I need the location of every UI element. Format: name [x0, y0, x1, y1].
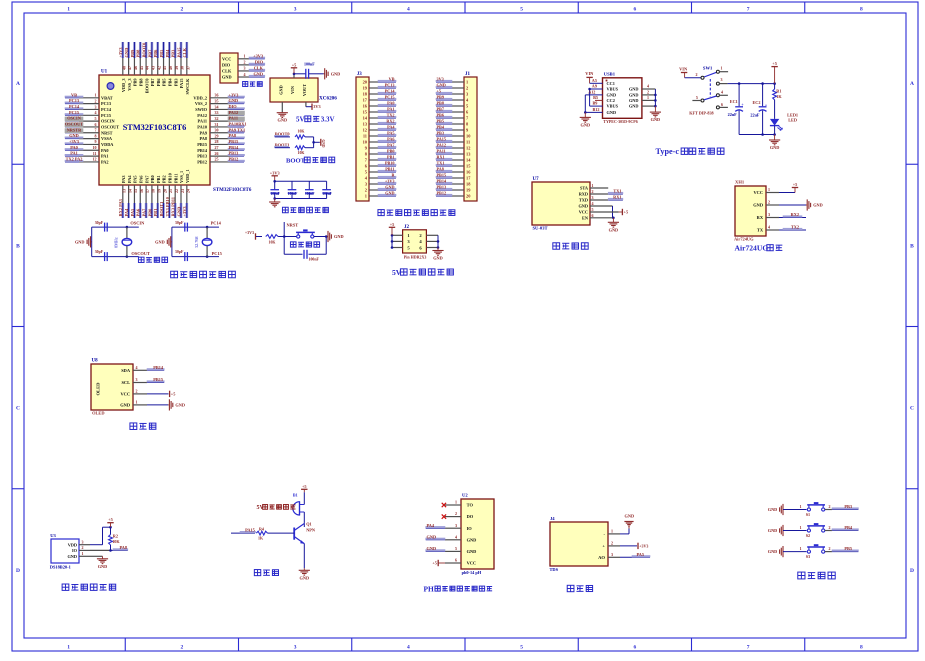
svg-text:2: 2 — [768, 200, 770, 205]
svg-text:PC15: PC15 — [385, 95, 395, 100]
svg-text:5: 5 — [455, 546, 457, 551]
svg-text:7: 7 — [747, 7, 750, 13]
svg-text:4: 4 — [768, 225, 770, 230]
svg-text:1: 1 — [365, 194, 367, 199]
svg-text:SWCLK: SWCLK — [185, 78, 190, 95]
svg-text:PA15: PA15 — [176, 47, 181, 58]
svg-text:S1: S1 — [806, 512, 810, 517]
svg-text:8: 8 — [860, 7, 863, 13]
svg-text:4: 4 — [407, 645, 410, 651]
svg-text:DIO: DIO — [255, 59, 264, 64]
svg-text:1: 1 — [455, 500, 457, 505]
svg-text:GND: GND — [75, 239, 85, 244]
svg-text:1: 1 — [647, 95, 649, 100]
svg-text:PC14: PC14 — [69, 104, 80, 109]
svg-text:Air724UG: Air724UG — [735, 244, 769, 253]
svg-text:6: 6 — [455, 558, 457, 563]
svg-text:PB14: PB14 — [437, 179, 447, 184]
svg-text:VOUT: VOUT — [302, 84, 307, 96]
svg-text:PB9: PB9 — [130, 49, 135, 58]
svg-text:2: 2 — [829, 525, 831, 530]
svg-text:3: 3 — [136, 377, 138, 382]
svg-text:10K: 10K — [269, 241, 276, 245]
svg-text:B: B — [16, 243, 20, 249]
svg-text:3: 3 — [244, 66, 246, 71]
svg-text:XH1: XH1 — [735, 180, 745, 185]
svg-text:VIN: VIN — [290, 85, 295, 94]
svg-text:PC13: PC13 — [101, 101, 111, 106]
svg-text:GND: GND — [279, 85, 284, 95]
svg-text:GND: GND — [753, 203, 763, 208]
svg-text:1: 1 — [768, 187, 770, 192]
svg-text:A9: A9 — [592, 83, 597, 88]
svg-text:+: + — [602, 544, 605, 549]
svg-text:PB15: PB15 — [197, 142, 207, 147]
svg-text:4: 4 — [95, 110, 97, 115]
svg-text:2: 2 — [95, 98, 97, 103]
svg-text:PA9 TX1: PA9 TX1 — [229, 127, 246, 132]
svg-text:5: 5 — [592, 207, 594, 212]
svg-text:3: 3 — [82, 540, 84, 545]
svg-text:30pF: 30pF — [175, 221, 184, 225]
svg-text:29: 29 — [215, 133, 219, 138]
svg-text:1: 1 — [82, 551, 84, 556]
svg-text:R4: R4 — [259, 526, 264, 531]
svg-text:2: 2 — [244, 60, 246, 65]
svg-text:PB6: PB6 — [156, 78, 161, 86]
svg-text:PB7: PB7 — [150, 78, 155, 86]
svg-text:PB10: PB10 — [168, 173, 173, 183]
svg-text:PB15: PB15 — [229, 139, 239, 144]
svg-text:SCL: SCL — [121, 380, 130, 385]
svg-text:GND: GND — [581, 122, 591, 127]
svg-text:PA15: PA15 — [179, 79, 184, 89]
svg-text:+3V3: +3V3 — [245, 230, 254, 235]
svg-text:GND: GND — [385, 185, 394, 190]
svg-text:45: 45 — [139, 66, 144, 70]
svg-text:9: 9 — [95, 139, 97, 144]
svg-text:PB7: PB7 — [437, 107, 444, 112]
svg-text:GND: GND — [651, 117, 661, 122]
svg-text:32: 32 — [215, 116, 219, 121]
svg-text:4: 4 — [455, 534, 457, 539]
svg-text:GND: GND — [331, 71, 341, 76]
svg-text:GND: GND — [175, 402, 185, 407]
svg-text:PA5: PA5 — [636, 552, 644, 557]
svg-text:+3V3: +3V3 — [639, 543, 648, 548]
svg-text:PB12: PB12 — [437, 191, 447, 196]
svg-text:GND: GND — [629, 98, 639, 103]
svg-text:S3: S3 — [806, 554, 810, 559]
svg-text:48: 48 — [121, 66, 126, 70]
svg-text:VCC: VCC — [467, 561, 477, 566]
svg-text:SWIO: SWIO — [195, 107, 207, 112]
svg-text:GND: GND — [433, 256, 443, 261]
svg-text:16: 16 — [139, 189, 144, 193]
svg-text:PB0: PB0 — [150, 175, 155, 183]
svg-text:2: 2 — [365, 188, 367, 193]
svg-text:CLK: CLK — [182, 47, 187, 57]
svg-text:38: 38 — [180, 66, 185, 70]
svg-text:2: 2 — [647, 90, 649, 95]
svg-text:BOOT0: BOOT0 — [144, 79, 149, 94]
svg-text:GND: GND — [609, 227, 619, 232]
svg-text:2: 2 — [181, 645, 184, 651]
svg-text:XC6206: XC6206 — [319, 96, 337, 102]
svg-text:1: 1 — [136, 400, 138, 405]
svg-text:21: 21 — [168, 189, 173, 193]
svg-text:BOOT: BOOT — [286, 158, 306, 165]
svg-text:20: 20 — [162, 189, 167, 193]
svg-text:SU-03T: SU-03T — [533, 226, 548, 231]
svg-text:11: 11 — [466, 140, 470, 145]
svg-text:GND: GND — [625, 514, 635, 519]
svg-text:+5: +5 — [624, 210, 629, 215]
svg-text:OLED: OLED — [96, 382, 101, 396]
svg-text:R2: R2 — [113, 534, 118, 539]
svg-text:PB8: PB8 — [138, 79, 143, 87]
svg-text:PA9: PA9 — [199, 130, 207, 135]
svg-text:PA12: PA12 — [197, 113, 207, 118]
svg-text:4: 4 — [136, 365, 138, 370]
svg-text:3: 3 — [95, 104, 97, 109]
svg-text:3: 3 — [294, 645, 297, 651]
svg-text:SW1: SW1 — [703, 66, 713, 71]
svg-text:GND: GND — [768, 528, 778, 533]
svg-text:PA6: PA6 — [136, 208, 141, 217]
svg-text:VDD: VDD — [68, 542, 77, 547]
svg-text:VDDA: VDDA — [101, 142, 114, 147]
svg-text:1: 1 — [800, 525, 802, 530]
svg-text:1: 1 — [800, 546, 802, 551]
svg-text:+3V3: +3V3 — [229, 92, 239, 97]
svg-text:6: 6 — [721, 102, 723, 107]
svg-text:PB13: PB13 — [197, 154, 207, 159]
svg-text:PB4: PB4 — [437, 125, 445, 130]
svg-text:PA0: PA0 — [101, 148, 109, 153]
svg-text:1: 1 — [721, 65, 723, 70]
svg-text:TX: TX — [757, 228, 764, 233]
svg-text:PB3: PB3 — [171, 49, 176, 58]
svg-text:TX3 PB10: TX3 PB10 — [165, 196, 170, 216]
svg-text:47: 47 — [127, 66, 132, 70]
svg-text:22uF: 22uF — [750, 112, 760, 117]
svg-text:NRST: NRST — [101, 130, 113, 135]
svg-text:1: 1 — [800, 504, 802, 509]
svg-text:19: 19 — [157, 189, 162, 193]
svg-text:11: 11 — [363, 134, 367, 139]
svg-text:EC1: EC1 — [730, 99, 738, 104]
svg-text:B1: B1 — [293, 493, 298, 498]
svg-text:VDD_1: VDD_1 — [185, 169, 190, 183]
svg-text:2: 2 — [696, 72, 698, 77]
svg-text:GND: GND — [578, 204, 588, 209]
svg-text:VBUS: VBUS — [607, 104, 619, 109]
svg-text:3V3: 3V3 — [437, 77, 444, 82]
svg-text:J2: J2 — [404, 225, 410, 230]
svg-text:PA6: PA6 — [387, 137, 394, 142]
svg-text:5V: 5V — [257, 505, 265, 511]
svg-text:PB9: PB9 — [437, 95, 444, 100]
svg-text:35: 35 — [215, 98, 219, 103]
svg-text:41: 41 — [162, 66, 167, 70]
svg-text:DIO: DIO — [229, 104, 238, 109]
svg-text:26: 26 — [215, 151, 219, 156]
svg-text:10K: 10K — [298, 130, 305, 134]
svg-text:22uF: 22uF — [728, 112, 738, 117]
svg-text:PB1: PB1 — [156, 175, 161, 183]
svg-text:PA7: PA7 — [144, 175, 149, 183]
svg-text:VIN: VIN — [679, 67, 688, 72]
svg-text:U3: U3 — [50, 533, 56, 538]
svg-text:3.3V: 3.3V — [321, 115, 335, 123]
svg-text:+5: +5 — [171, 391, 176, 396]
svg-text:B9: B9 — [593, 101, 598, 106]
svg-text:33: 33 — [215, 110, 219, 115]
svg-text:23: 23 — [180, 189, 185, 193]
svg-text:31: 31 — [215, 122, 219, 127]
svg-text:TX2: TX2 — [387, 113, 395, 118]
svg-text:GND: GND — [629, 104, 639, 109]
svg-text:GND: GND — [278, 118, 288, 123]
svg-text:18: 18 — [151, 189, 156, 193]
svg-text:J1: J1 — [465, 72, 471, 77]
svg-text:DO: DO — [467, 514, 474, 519]
svg-text:A: A — [910, 81, 914, 87]
svg-text:GND: GND — [176, 207, 181, 217]
svg-text:PB13: PB13 — [229, 151, 239, 156]
svg-text:PA11: PA11 — [198, 119, 207, 124]
svg-text:LED: LED — [788, 118, 797, 123]
svg-text:PB11: PB11 — [385, 167, 394, 172]
svg-text:A: A — [16, 81, 20, 87]
svg-text:25: 25 — [215, 157, 219, 162]
svg-text:14: 14 — [127, 189, 132, 193]
svg-text:OLED: OLED — [92, 411, 104, 416]
svg-text:SDA: SDA — [121, 368, 131, 373]
svg-text:PB15: PB15 — [153, 377, 163, 382]
svg-text:GND: GND — [334, 234, 344, 239]
svg-text:PC15: PC15 — [69, 110, 79, 115]
svg-text:OSCOUT: OSCOUT — [131, 251, 150, 256]
svg-text:PA4: PA4 — [427, 523, 435, 528]
svg-text:PA15: PA15 — [245, 528, 255, 533]
svg-text:KFT DIP-838: KFT DIP-838 — [689, 111, 713, 116]
svg-text:+5: +5 — [772, 61, 777, 66]
svg-text:CLK: CLK — [254, 66, 264, 71]
svg-text:5: 5 — [696, 95, 698, 100]
svg-text:S2: S2 — [806, 533, 810, 538]
svg-text:1K: 1K — [776, 94, 782, 99]
svg-text:PB1: PB1 — [387, 155, 394, 160]
svg-text:VCC: VCC — [222, 56, 231, 61]
svg-text:PA11: PA11 — [229, 116, 238, 121]
svg-text:6: 6 — [634, 645, 637, 651]
svg-text:PB14: PB14 — [229, 145, 240, 150]
svg-text:CLK: CLK — [222, 68, 232, 73]
svg-text:PB6: PB6 — [153, 49, 158, 58]
svg-text:1: 1 — [67, 645, 70, 651]
svg-text:DS18B20-1: DS18B20-1 — [50, 565, 71, 570]
svg-text:PA8: PA8 — [437, 167, 444, 172]
svg-text:GND: GND — [67, 554, 77, 559]
svg-text:+3V3: +3V3 — [69, 139, 79, 144]
svg-text:GND: GND — [155, 239, 165, 244]
svg-text:U1: U1 — [101, 70, 108, 75]
svg-text:EN: EN — [582, 216, 589, 221]
svg-text:RXD: RXD — [579, 192, 588, 197]
svg-text:RX1: RX1 — [613, 195, 621, 200]
svg-text:100nF: 100nF — [305, 192, 315, 196]
svg-text:5: 5 — [520, 645, 523, 651]
svg-text:STM32F103C8T6: STM32F103C8T6 — [123, 123, 187, 132]
svg-text:+5: +5 — [302, 484, 307, 489]
svg-text:37: 37 — [185, 66, 190, 70]
svg-text:GND: GND — [120, 403, 130, 408]
svg-text:100nF: 100nF — [309, 258, 320, 262]
svg-text:+5: +5 — [793, 182, 798, 187]
svg-text:VCC: VCC — [120, 392, 130, 397]
svg-text:VDD_3: VDD_3 — [121, 79, 126, 93]
svg-text:PB7: PB7 — [147, 49, 152, 58]
svg-text:NRST: NRST — [287, 223, 299, 228]
svg-text:GND: GND — [222, 75, 232, 80]
svg-text:OSCIN: OSCIN — [67, 116, 82, 121]
svg-text:8MHz: 8MHz — [114, 237, 119, 248]
svg-text:TX1: TX1 — [613, 189, 621, 194]
svg-text:+3V3: +3V3 — [253, 53, 263, 58]
svg-text:PA4: PA4 — [127, 175, 132, 183]
svg-text:11: 11 — [93, 151, 97, 156]
svg-text:42: 42 — [156, 66, 161, 70]
svg-text:GND: GND — [98, 564, 108, 569]
svg-text:+3V3: +3V3 — [385, 179, 395, 184]
svg-text:D: D — [16, 568, 20, 574]
svg-text:GND: GND — [300, 575, 310, 580]
svg-text:+5: +5 — [292, 62, 297, 67]
svg-text:PC13: PC13 — [69, 98, 79, 103]
svg-text:PB4: PB4 — [165, 49, 170, 58]
svg-text:PB5: PB5 — [162, 79, 167, 87]
svg-text:R1: R1 — [776, 88, 781, 93]
svg-text:VCC: VCC — [753, 190, 763, 195]
svg-text:TO: TO — [467, 503, 474, 508]
svg-text:GND: GND — [629, 87, 639, 92]
svg-text:1: 1 — [466, 80, 468, 85]
svg-text:2: 2 — [82, 545, 84, 550]
svg-text:1K: 1K — [258, 536, 264, 541]
svg-text:6: 6 — [634, 7, 637, 13]
svg-text:STA: STA — [580, 186, 589, 191]
svg-text:OSCOUT: OSCOUT — [65, 122, 83, 127]
svg-text:PA10RX1: PA10RX1 — [229, 122, 247, 127]
svg-text:IO: IO — [72, 548, 78, 553]
svg-text:PB4: PB4 — [168, 78, 173, 86]
svg-text:STM32F103C8T6: STM32F103C8T6 — [213, 188, 252, 193]
svg-text:13: 13 — [122, 189, 127, 193]
svg-text:100uF: 100uF — [270, 192, 280, 196]
svg-text:GND: GND — [607, 110, 617, 115]
svg-text:32.768: 32.768 — [194, 236, 199, 248]
svg-text:PA7: PA7 — [387, 143, 394, 148]
svg-text:3: 3 — [768, 212, 770, 217]
svg-text:+3V3: +3V3 — [118, 47, 123, 58]
svg-text:6: 6 — [95, 122, 97, 127]
svg-text:2: 2 — [466, 86, 468, 91]
svg-text:PB10: PB10 — [385, 161, 395, 166]
svg-text:+5: +5 — [432, 561, 436, 566]
svg-text:GND: GND — [770, 145, 780, 150]
svg-text:2: 2 — [611, 541, 613, 546]
svg-text:PB14: PB14 — [153, 365, 164, 370]
svg-text:PA8: PA8 — [199, 136, 207, 141]
svg-text:RX: RX — [757, 215, 764, 220]
svg-text:RX2: RX2 — [791, 212, 799, 217]
svg-text:30pF: 30pF — [95, 221, 104, 225]
svg-text:22: 22 — [174, 189, 179, 193]
svg-text:PB14: PB14 — [197, 148, 208, 153]
svg-text:5: 5 — [95, 116, 97, 121]
svg-text:PB0: PB0 — [387, 149, 394, 154]
svg-text:8: 8 — [860, 645, 863, 651]
svg-text:PA7: PA7 — [141, 208, 146, 217]
svg-text:PC14: PC14 — [101, 107, 112, 112]
svg-text:VBAT: VBAT — [101, 95, 113, 100]
svg-text:+5: +5 — [108, 517, 113, 522]
svg-text:GND: GND — [768, 507, 778, 512]
svg-text:12: 12 — [93, 157, 97, 162]
svg-text:A5: A5 — [592, 78, 597, 83]
svg-text:PB8: PB8 — [136, 49, 141, 58]
svg-text:PB11: PB11 — [173, 173, 178, 183]
svg-text:OSCOUT: OSCOUT — [101, 124, 119, 129]
svg-text:3V3: 3V3 — [313, 104, 320, 109]
svg-text:PA0: PA0 — [387, 101, 394, 106]
svg-text:+5: +5 — [390, 222, 395, 227]
svg-text:TX1: TX1 — [437, 161, 445, 166]
svg-text:3: 3 — [721, 77, 723, 82]
svg-text:PB3: PB3 — [437, 131, 444, 136]
svg-text:44: 44 — [145, 66, 150, 70]
svg-text:PB12: PB12 — [229, 157, 239, 162]
svg-text:5V: 5V — [296, 115, 305, 123]
svg-text:34: 34 — [215, 104, 219, 109]
svg-text:30pF: 30pF — [175, 250, 184, 254]
svg-text:2: 2 — [829, 546, 831, 551]
svg-text:PC14: PC14 — [211, 221, 222, 226]
svg-text:CC2: CC2 — [607, 98, 615, 103]
svg-text:VDD_2: VDD_2 — [193, 95, 207, 100]
svg-text:B12: B12 — [593, 107, 600, 112]
svg-text:Type-c: Type-c — [656, 147, 680, 156]
svg-text:+5: +5 — [437, 89, 441, 94]
svg-text:1: 1 — [592, 183, 594, 188]
svg-text:Q1: Q1 — [306, 521, 312, 526]
svg-text:VBUS: VBUS — [607, 87, 619, 92]
svg-text:PB5: PB5 — [159, 49, 164, 58]
svg-text:PA5: PA5 — [130, 208, 135, 217]
svg-text:PC15: PC15 — [212, 251, 223, 256]
svg-text:3: 3 — [592, 195, 594, 200]
svg-text:VB: VB — [389, 77, 395, 82]
svg-text:PB8: PB8 — [437, 101, 444, 106]
svg-text:PA8: PA8 — [119, 545, 127, 550]
svg-text:TYPEC-305D-9CP6: TYPEC-305D-9CP6 — [603, 119, 637, 124]
svg-text:7: 7 — [95, 128, 97, 133]
svg-text:PA11: PA11 — [437, 149, 446, 154]
svg-text:AO: AO — [598, 555, 605, 560]
svg-text:+3V3: +3V3 — [182, 206, 187, 217]
